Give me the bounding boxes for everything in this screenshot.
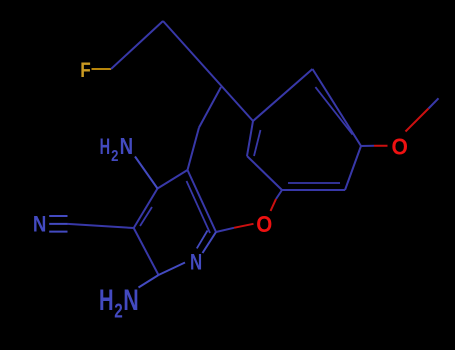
- ether bond E to O mid (navy half): [276, 190, 282, 199]
- svg-text:N: N: [120, 133, 134, 159]
- pyridine bond C2-N1: [159, 263, 186, 276]
- inner double bond B-C: [315, 87, 352, 135]
- nitrile triple bond bottom line: [49, 231, 67, 233]
- nitrile triple bond top line: [49, 215, 67, 217]
- benzene ring right: edge P-B: [253, 69, 313, 121]
- nitrile single bond C3 to C: [68, 224, 134, 228]
- methyl bond from O right (red half): [406, 109, 429, 132]
- methoxy bond C to O right (navy half): [361, 145, 374, 147]
- svg-text:H: H: [99, 284, 114, 317]
- amino H2N upper label: [100, 133, 134, 165]
- svg-text:O: O: [256, 211, 272, 237]
- pyridine bond N1-C6: [203, 232, 217, 253]
- ether bond C6 to O mid (red half): [234, 224, 254, 228]
- wire long slope apex to ring junction: [163, 21, 253, 121]
- svg-text:O: O: [392, 134, 408, 160]
- inner double bond N1-C6: [197, 231, 208, 249]
- svg-text:2: 2: [114, 301, 123, 323]
- svg-text:2: 2: [111, 148, 118, 165]
- ether bond C6 to O mid (navy half): [216, 228, 234, 232]
- pyridine edge C6-C5: [188, 170, 217, 232]
- inner double bond Q-P: [254, 130, 261, 156]
- inner double bond C4-C3: [140, 207, 152, 226]
- svg-text:N: N: [33, 212, 47, 237]
- edge Q-P: [247, 121, 253, 156]
- edge C-D: [345, 146, 361, 190]
- wire C-F bond: [92, 68, 112, 70]
- ether bond E to O mid (red half): [271, 199, 277, 211]
- inner double bond D-E: [288, 182, 340, 184]
- wire chain up-right from F vertex: [111, 21, 163, 69]
- wire branch to benzylic CH2: [199, 87, 221, 128]
- amino bond C2-NH2: [139, 275, 159, 288]
- svg-text:H: H: [100, 134, 111, 159]
- inner double bond C6-C5: [187, 181, 211, 233]
- pyridine edge C4-C3: [134, 189, 158, 229]
- fluorine F label: [80, 58, 91, 82]
- amino H2N lower label: [99, 284, 139, 322]
- nitrile triple bond middle line: [49, 223, 67, 225]
- svg-text:N: N: [190, 250, 202, 275]
- methyl bond from O right (navy half): [429, 98, 439, 108]
- svg-text:N: N: [123, 284, 139, 317]
- edge B-C: [313, 69, 362, 146]
- methoxy bond C to O right (red half): [374, 145, 388, 147]
- pyridine edge C3-C2: [134, 228, 159, 275]
- pyridine edge C5-C4: [158, 170, 188, 189]
- amino bond C4-NH2: [135, 157, 158, 189]
- edge D-E: [282, 189, 345, 191]
- svg-text:F: F: [80, 58, 91, 82]
- edge E-Q: [247, 156, 282, 190]
- wire CH2 to pyridine C5: [188, 128, 200, 171]
